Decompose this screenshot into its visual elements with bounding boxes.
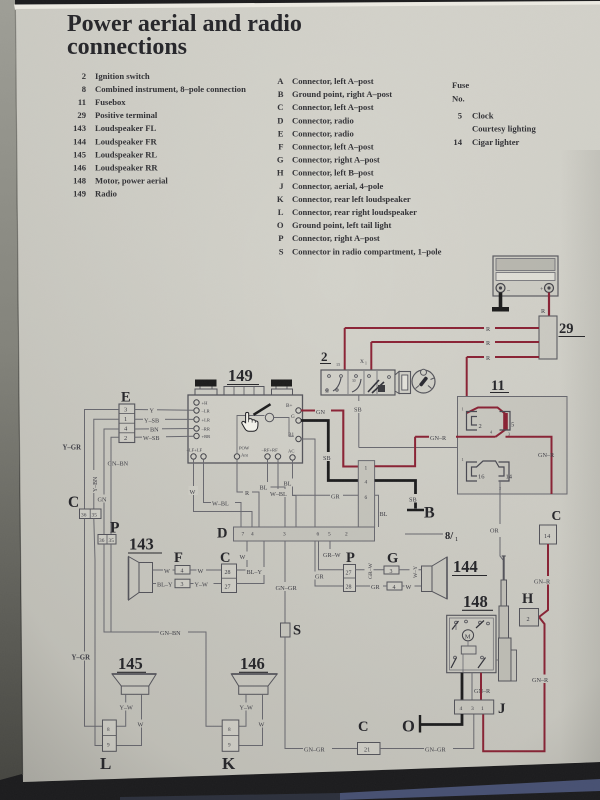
ignition switch 2 xyxy=(320,349,395,395)
wire GN-BN from E4 left and down to P36 xyxy=(97,429,129,535)
connector D vertical bar xyxy=(358,461,374,527)
fuse labels top xyxy=(462,407,515,437)
connector D horizontal bar xyxy=(217,526,375,542)
wire GN radio B+ to D1 (red) xyxy=(301,407,358,467)
loudspeaker 143 xyxy=(128,535,162,601)
radio right pins xyxy=(296,408,301,442)
connector C 36/35 xyxy=(68,494,101,519)
wire BL radio -RF to D xyxy=(259,459,286,527)
wire GR-W D6 down to P27 xyxy=(319,541,347,570)
wire R rail 1 xyxy=(345,323,539,333)
wire GR P28 to G4 xyxy=(356,582,388,591)
wire GN-GR D3 down through S to bottom rail xyxy=(284,541,286,623)
wire GN-R terminal C14 down through H to bottom red loop xyxy=(474,544,559,751)
wire R rail 3 xyxy=(467,352,539,362)
wire C35 down to L9 xyxy=(94,519,103,746)
wire W F4 to C28 xyxy=(190,566,222,575)
wire GN-R from fuse 5 to right and down xyxy=(506,437,556,494)
wire SB radio G to D4 (black) xyxy=(301,421,358,481)
radio top connector bar 2 xyxy=(271,380,293,396)
ground O xyxy=(402,715,420,736)
wire GN-BN P36 down and right to K8 xyxy=(104,544,222,726)
wire W-BL radio +LF to D xyxy=(204,459,242,527)
fuse 16/14 lower xyxy=(467,461,510,481)
radio internal wiring xyxy=(237,416,294,454)
wire P35 down joining GN-BN xyxy=(110,544,112,632)
wire SB motor to J4 (black) xyxy=(461,673,464,700)
wire Y-GR C36 down to L8 xyxy=(71,519,103,727)
wire W-BL radio +RF to D xyxy=(269,459,296,527)
connector S xyxy=(281,623,302,639)
connector L xyxy=(100,720,116,773)
fuse 16/14 labels xyxy=(462,457,513,491)
connector C 28/27 xyxy=(220,550,237,593)
wire BL/GR radio AC to D6 xyxy=(284,460,359,500)
connector F xyxy=(174,550,190,588)
wire J4 down to ground O (black) xyxy=(421,714,462,725)
radio internal contact circle xyxy=(265,413,273,421)
wire OR from fuse 14 down to aerial xyxy=(490,481,503,560)
wire Y-W 146 to K8 xyxy=(239,694,259,726)
connector G xyxy=(384,551,402,591)
hand cursor xyxy=(242,412,258,431)
radio bottom pins xyxy=(191,454,295,460)
battery xyxy=(493,256,558,296)
positive terminal 29 xyxy=(539,316,585,359)
key symbol xyxy=(412,369,435,393)
wire rail3 down to fusebox xyxy=(466,357,468,414)
fuse 5 left bracket xyxy=(467,412,478,431)
radio 149 xyxy=(227,366,259,385)
wire BN radio to E4 xyxy=(135,425,194,434)
wire Y-GR from E3 left and down to C36 xyxy=(63,410,120,510)
ignition switch connector wedge xyxy=(395,372,411,394)
loudspeaker 144 xyxy=(422,557,488,599)
ground B xyxy=(407,505,435,522)
fuse 5 right bracket xyxy=(500,412,511,431)
connector P 27/28 xyxy=(344,550,356,592)
radio switch lever xyxy=(254,404,271,415)
wire battery positive R to terminal 29 xyxy=(541,293,549,317)
wire W-Y G3 to speaker 144 xyxy=(399,560,422,579)
wire motor to J3 xyxy=(471,673,473,700)
page stack white edge highlight xyxy=(14,1,600,10)
radio top connector bar 1 xyxy=(195,380,217,396)
wire Y-W 145 to L8 xyxy=(116,694,138,726)
wire BL D6 stub down xyxy=(375,495,388,527)
fusebox 11 xyxy=(458,378,568,494)
wire from E2 left and down to P35 xyxy=(111,437,119,534)
connector C 14 xyxy=(540,508,562,544)
aerial mast xyxy=(496,556,517,681)
wire GN-R motor to J1 (red) xyxy=(480,673,482,700)
page left edge seam xyxy=(15,10,22,775)
wire S down to rail xyxy=(285,637,358,749)
LEGEND column 3 xyxy=(452,80,536,147)
wire GR radio B1 to P28 xyxy=(301,439,344,586)
wire rail1 down to ignition switch xyxy=(344,328,346,370)
wire Y radio to E3 xyxy=(135,406,194,415)
left table surface xyxy=(0,0,22,780)
wire SB from ignition switch down xyxy=(354,395,466,463)
wire Y-SB radio to E1 xyxy=(135,416,194,425)
wire SB D4 right to ground B xyxy=(375,481,422,509)
wire BL-Y 143 to F3 xyxy=(153,579,178,588)
wire 8/1 combined instrument xyxy=(405,531,458,543)
wire D5 stub xyxy=(329,541,331,549)
wire W G4 to speaker 144 xyxy=(402,582,422,591)
wire Y-W F3 to C27 xyxy=(190,579,222,588)
radio top middle connector xyxy=(224,387,264,396)
motor power aerial 148 xyxy=(447,592,496,673)
fuse 5 red path xyxy=(467,408,508,437)
wire rail2 down to ignition switch xyxy=(370,342,372,370)
wire GN-GR C21 to J3 xyxy=(380,714,474,754)
ground battery xyxy=(492,307,509,312)
wire W 145 to L9 xyxy=(116,694,146,745)
TITLE xyxy=(67,11,302,60)
wire W 146 to K9 xyxy=(239,694,268,745)
connector C 21 xyxy=(358,719,381,755)
wire BL-Y C27 up to D xyxy=(237,541,267,584)
wire battery negative to ground xyxy=(499,293,503,308)
label GN-GR left xyxy=(303,745,332,754)
radio left pins xyxy=(194,400,199,439)
connector P 36/35 xyxy=(98,520,120,545)
wire W-SB radio to E2 xyxy=(135,433,194,442)
wire Y-BN from E1 left and down to C35 xyxy=(91,419,120,509)
wire R radio POW to D xyxy=(237,459,259,527)
page right curvature shading xyxy=(0,0,1,1)
connector J xyxy=(455,700,507,717)
wire GN-R from fuse 5 to left xyxy=(415,433,495,443)
bottom blue-grey strip (screen edge) xyxy=(340,779,600,800)
radio main box xyxy=(188,395,303,463)
wire GR-W P27 to G3 xyxy=(356,559,385,580)
wire W 143 to F4 xyxy=(153,566,176,575)
connector E xyxy=(119,390,135,443)
LEGEND column 2 xyxy=(277,76,442,256)
wire W C28 up to D7 xyxy=(237,541,249,570)
connector H xyxy=(520,591,539,626)
loudspeaker 146 xyxy=(231,654,277,694)
loudspeaker 145 xyxy=(112,654,156,694)
LEGEND column 1 xyxy=(73,71,246,199)
wire GN-R D1 right to fuse line xyxy=(375,437,416,467)
connector K xyxy=(222,720,239,773)
wire W radio -LF to D xyxy=(189,459,253,527)
wire R rail 2 xyxy=(371,337,539,347)
